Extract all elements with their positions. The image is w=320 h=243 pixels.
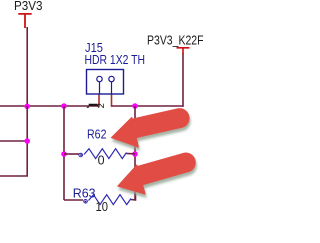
connector J15 pin2 stub — [111, 82, 113, 94]
svg-text:2: 2 — [96, 103, 107, 108]
junction left stub — [24, 138, 30, 144]
connector J15 body — [87, 70, 124, 95]
wire header pin2 drop — [111, 94, 113, 107]
wire main bus y=106 left segment — [0, 105, 99, 107]
junction P3V3 at bus — [24, 104, 30, 110]
resistor R63 right lead — [131, 194, 136, 200]
wire P3V3 stem to bus — [26, 27, 28, 106]
wire right vertical x=135 — [134, 106, 136, 200]
annotation arrow 2 pointing at R63 — [118, 153, 196, 194]
connector J15 pin1 stub — [99, 82, 101, 94]
svg-text:P3V3: P3V3 — [14, 0, 43, 13]
connector J15 pin1 circle — [97, 76, 102, 81]
junction right bus — [132, 103, 138, 109]
svg-text:R63: R63 — [73, 186, 96, 200]
wire left stub y=176 — [0, 175, 28, 177]
wire mid vertical x=64 — [63, 106, 65, 200]
connector J15 pin2 circle — [109, 76, 114, 81]
pin number 1 — [86, 104, 97, 108]
power symbol P3V3 bar — [18, 14, 31, 28]
resistor R62 zigzag — [84, 149, 127, 159]
junction mid bus — [61, 103, 67, 109]
wire R62 left lead — [64, 153, 79, 155]
wire bus to header pin1 riser — [98, 94, 100, 107]
resistor R63 zigzag — [89, 195, 132, 205]
resistor R63 pin dot — [84, 200, 88, 204]
svg-text:P3V3_K22F: P3V3_K22F — [147, 33, 204, 47]
resistor R62 right lead — [127, 153, 136, 155]
junction R62 right — [132, 151, 138, 157]
annotation arrow 1 pointing at R62 — [111, 109, 189, 147]
net label stub red — [177, 48, 190, 54]
svg-text:0: 0 — [98, 153, 105, 167]
wire left stub y=141 — [0, 140, 27, 142]
wire R63 left lead — [64, 199, 83, 201]
svg-text:HDR 1X2 TH: HDR 1X2 TH — [85, 53, 146, 67]
svg-text:10: 10 — [96, 200, 109, 214]
wire riser to net label P3V3_K22F — [182, 53, 184, 107]
wire left vertical x=27 — [26, 106, 28, 176]
resistor R62 pin dot — [79, 153, 83, 157]
junction R62 left — [61, 151, 67, 157]
wire bus y=106 right segment to net stub — [112, 105, 184, 107]
svg-text:R62: R62 — [87, 127, 107, 141]
